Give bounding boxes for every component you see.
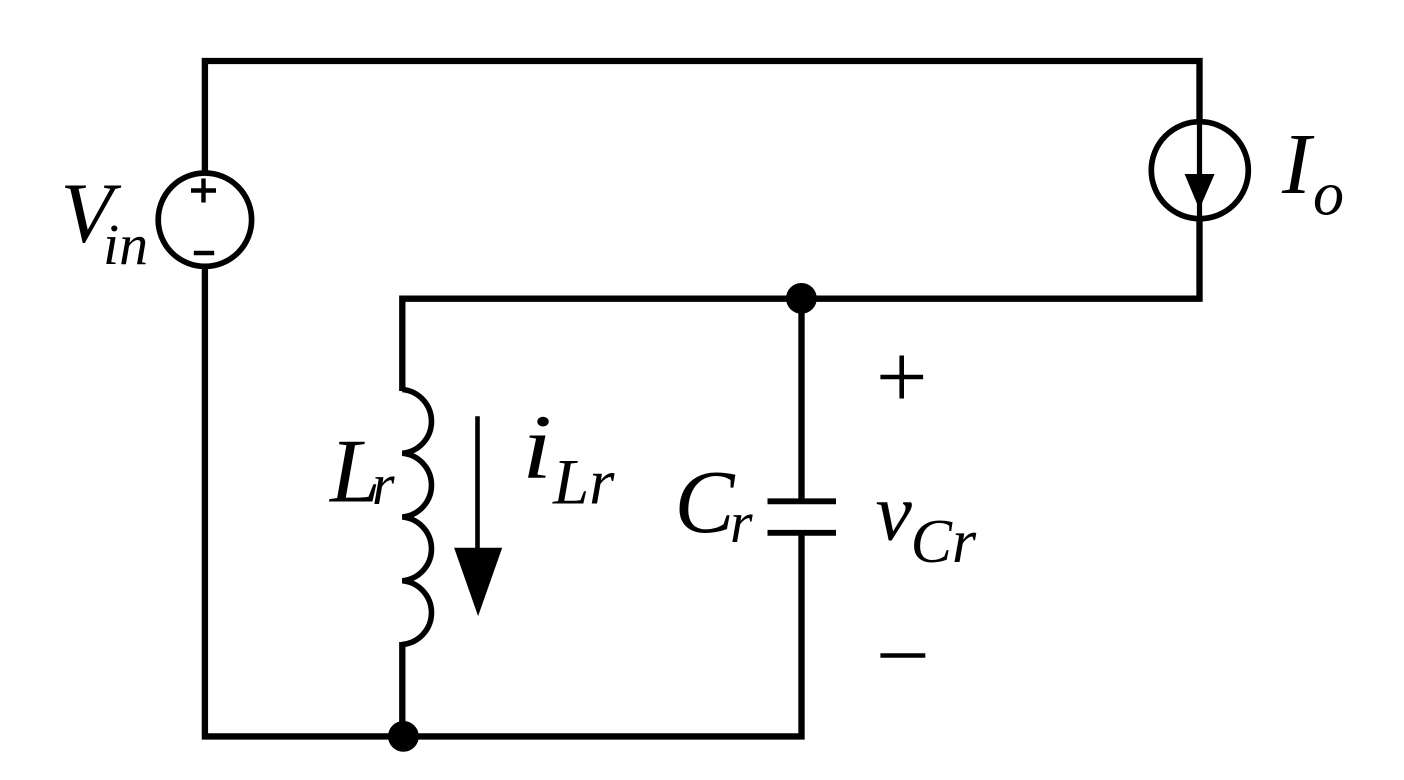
label iLr	[522, 396, 615, 519]
plus sign vCr	[880, 356, 923, 399]
svg-text:Cr: Cr	[911, 508, 977, 576]
voltage source U Vin	[158, 173, 251, 266]
current arrow iLr	[454, 416, 502, 616]
label Io	[1281, 115, 1344, 229]
label Vin	[61, 165, 149, 278]
wire left lower + bottom wire + capacitor bottom lead	[205, 269, 802, 737]
svg-text:r: r	[730, 490, 753, 555]
label Cr	[675, 453, 754, 555]
label Lr	[328, 421, 395, 522]
node middle junction dot	[786, 283, 817, 314]
svg-text:C: C	[675, 453, 736, 552]
svg-text:r: r	[372, 452, 395, 517]
label vCr	[876, 467, 977, 576]
svg-text:I: I	[1281, 115, 1315, 212]
svg-text:v: v	[876, 467, 913, 558]
wire top loop: left vertical upper + top wire + right vertical upper	[205, 61, 1200, 171]
capacitor Cr plates	[768, 501, 837, 533]
svg-text:i: i	[522, 396, 552, 498]
wire inductor bottom lead	[399, 642, 405, 736]
wire middle: inductor top lead + middle wire + right vertical lower	[402, 220, 1199, 391]
svg-text:o: o	[1313, 161, 1344, 229]
node bottom junction dot	[388, 721, 419, 752]
inductor Lr coil	[402, 390, 431, 645]
minus sign vCr	[880, 653, 925, 658]
current source U Io	[1151, 120, 1248, 219]
svg-text:Lr: Lr	[552, 447, 615, 519]
wire capacitor top lead	[798, 299, 804, 500]
svg-text:in: in	[103, 212, 148, 277]
